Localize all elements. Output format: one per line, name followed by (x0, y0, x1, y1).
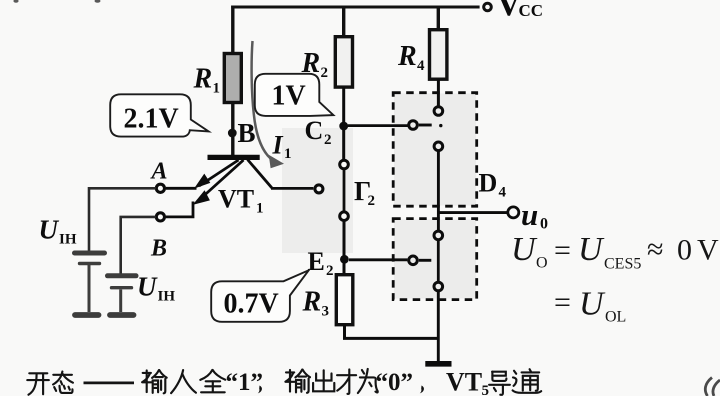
battery UIH 2 positive plate (108, 273, 137, 278)
svg-text:5: 5 (482, 383, 490, 396)
battery UIH 2 negative plate (112, 286, 132, 289)
caption comma 2 (420, 386, 424, 394)
hanzi shu 2 (285, 370, 310, 393)
hanzi tong (513, 369, 542, 393)
wire lower contact to node E2 (343, 221, 346, 276)
svg-text:1: 1 (256, 201, 264, 217)
svg-text:A: A (150, 159, 168, 185)
svg-text:VT: VT (218, 185, 254, 214)
svg-text:B: B (238, 118, 256, 148)
transistor VT1 emitter 1 line (199, 160, 239, 186)
svg-text:2: 2 (321, 65, 329, 81)
transistor VT1 collector line (248, 160, 272, 188)
hanzi cai (337, 369, 356, 394)
bottom caption (27, 369, 541, 395)
wire top rail to R2 (342, 6, 345, 38)
svg-text:“0”: “0” (376, 369, 414, 396)
hanzi shu 1 (142, 370, 167, 393)
svg-text:1V: 1V (272, 81, 306, 112)
dashed box D4 (393, 93, 477, 207)
svg-text:0.7V: 0.7V (224, 289, 279, 320)
resistor R4 (430, 30, 447, 79)
svg-text:IH: IH (59, 232, 77, 248)
wire B to battery 2 (121, 217, 156, 274)
svg-text:R: R (302, 287, 322, 318)
svg-text:=: = (554, 234, 571, 267)
stray glyph fragment top-left (13, 0, 18, 3)
wire R3 to ground rail (345, 325, 439, 339)
svg-text:O: O (536, 255, 548, 272)
wire VCC top rail (231, 6, 479, 9)
shaded region behind VT2 branch (282, 128, 353, 253)
svg-text:CC: CC (519, 1, 544, 20)
hanzi dao (489, 372, 510, 395)
switch D4 open arm dash (419, 124, 432, 127)
terminal VCC (484, 3, 492, 11)
wire input B horizontal and riser (166, 202, 193, 217)
svg-text:C: C (305, 116, 324, 145)
wire D4 contact to output junction (437, 151, 440, 231)
stray glyph fragment top-mid (95, 0, 101, 3)
wire C2 to D4 switch (348, 124, 408, 127)
svg-text:0: 0 (677, 234, 692, 267)
shaded region inside D4 top box (394, 94, 476, 206)
svg-text:u: u (521, 197, 538, 232)
svg-text:4: 4 (417, 58, 425, 74)
svg-text:3: 3 (322, 304, 330, 320)
callout bubble 0.7V (211, 270, 309, 322)
wire R2 to node C2 and to switch contact (342, 87, 345, 160)
wire input A horizontal (166, 187, 197, 190)
terminal input B (156, 213, 164, 221)
hanzi ru (171, 370, 196, 393)
stray glyph fragment bottom-right (705, 378, 712, 396)
wire R4 to D4 contact (437, 79, 440, 107)
hanzi kai (27, 373, 49, 394)
svg-text:2: 2 (368, 193, 376, 209)
switch VT2 closed link (343, 169, 346, 212)
battery UIH 1 positive plate (75, 251, 105, 256)
hanzi tai (53, 372, 73, 393)
wire top rail to R4 (437, 6, 440, 31)
wire battery 2 down (119, 290, 122, 313)
wire R1 to base node B (231, 103, 234, 158)
svg-text:=: = (554, 286, 571, 319)
switch D4 contact top (434, 107, 443, 116)
terminal input A (156, 184, 164, 192)
svg-text:CES5: CES5 (604, 256, 641, 273)
svg-text:B: B (150, 236, 167, 262)
svg-text:R: R (397, 41, 417, 72)
svg-text:1: 1 (284, 146, 292, 162)
wire VT5 to ground (437, 291, 440, 361)
svg-text:2: 2 (326, 263, 334, 279)
svg-text:1: 1 (213, 81, 221, 97)
svg-text:“1”: “1” (226, 369, 264, 396)
transistor VT1 emitter 1 arrowhead (194, 174, 210, 189)
battery 2 bottom bar (110, 312, 134, 318)
current I1 arrowhead (269, 155, 284, 169)
hanzi chu (313, 370, 334, 391)
svg-text:VT: VT (446, 368, 482, 396)
svg-text:E: E (308, 247, 325, 276)
transistor VT1 emitter 2 arrowhead (193, 190, 210, 205)
svg-text:D: D (479, 169, 498, 198)
svg-text:R: R (193, 64, 213, 95)
switch D4 base contact circle (409, 121, 418, 130)
svg-text:U: U (579, 286, 606, 323)
svg-text:OL: OL (605, 309, 626, 326)
transistor VT1 base bar (208, 155, 260, 160)
switch D4 open arm dot (439, 124, 442, 127)
switch VT2 contact upper (340, 160, 349, 169)
switch VT2 contact lower (340, 212, 349, 221)
svg-text:V: V (697, 234, 719, 267)
current I1 curved arrow (252, 41, 274, 161)
node B junction dot (228, 129, 237, 138)
svg-text:U: U (137, 272, 158, 302)
hanzi wei (358, 369, 378, 393)
switch VT5 contact bottom (434, 282, 443, 291)
svg-text:U: U (578, 231, 605, 268)
contact circle collector of VT1 (315, 185, 323, 193)
battery 1 bottom bar (75, 312, 99, 318)
shaded region inside VT5 bottom box (394, 220, 476, 299)
node E2 junction dot (340, 255, 349, 264)
switch D4 contact bottom (open gap) (434, 142, 443, 151)
wire output u0 (438, 211, 507, 214)
resistor R2 (335, 37, 352, 87)
wire E2 to VT5 base contact (349, 258, 407, 261)
svg-text:2.1V: 2.1V (124, 104, 179, 135)
callout bubble 2.1V (110, 94, 208, 136)
node C2 junction dot (339, 122, 348, 131)
svg-text:U: U (39, 215, 60, 245)
wire top rail to R1 (231, 6, 234, 55)
terminal u0 (508, 207, 519, 218)
resistor R3 (336, 275, 353, 325)
switch VT5 contact top (434, 231, 443, 240)
svg-text:4: 4 (499, 185, 507, 201)
callout bubble 1V (255, 74, 334, 116)
transistor VT1 emitter 2 line (198, 160, 244, 201)
svg-text:U: U (511, 231, 538, 268)
dashed box VT5 (393, 219, 477, 300)
caption comma 1 (258, 386, 262, 394)
switch VT5 closed link (437, 240, 440, 282)
ground symbol (425, 361, 451, 367)
svg-text:0: 0 (540, 216, 548, 233)
svg-text:2: 2 (324, 132, 332, 148)
hanzi quan (200, 370, 225, 392)
resistor R1 (224, 54, 241, 103)
wire A to battery 1 (89, 188, 156, 250)
battery UIH 1 negative plate (80, 262, 100, 265)
svg-text:I: I (272, 131, 284, 160)
switch VT5 arm stub (419, 259, 432, 262)
em dash (84, 381, 135, 384)
wire collector to open contact (271, 187, 313, 190)
switch VT5 base contact circle (409, 256, 418, 265)
svg-text:≈: ≈ (647, 233, 663, 266)
wire battery 1 down (88, 265, 91, 312)
svg-text:IH: IH (158, 289, 176, 305)
